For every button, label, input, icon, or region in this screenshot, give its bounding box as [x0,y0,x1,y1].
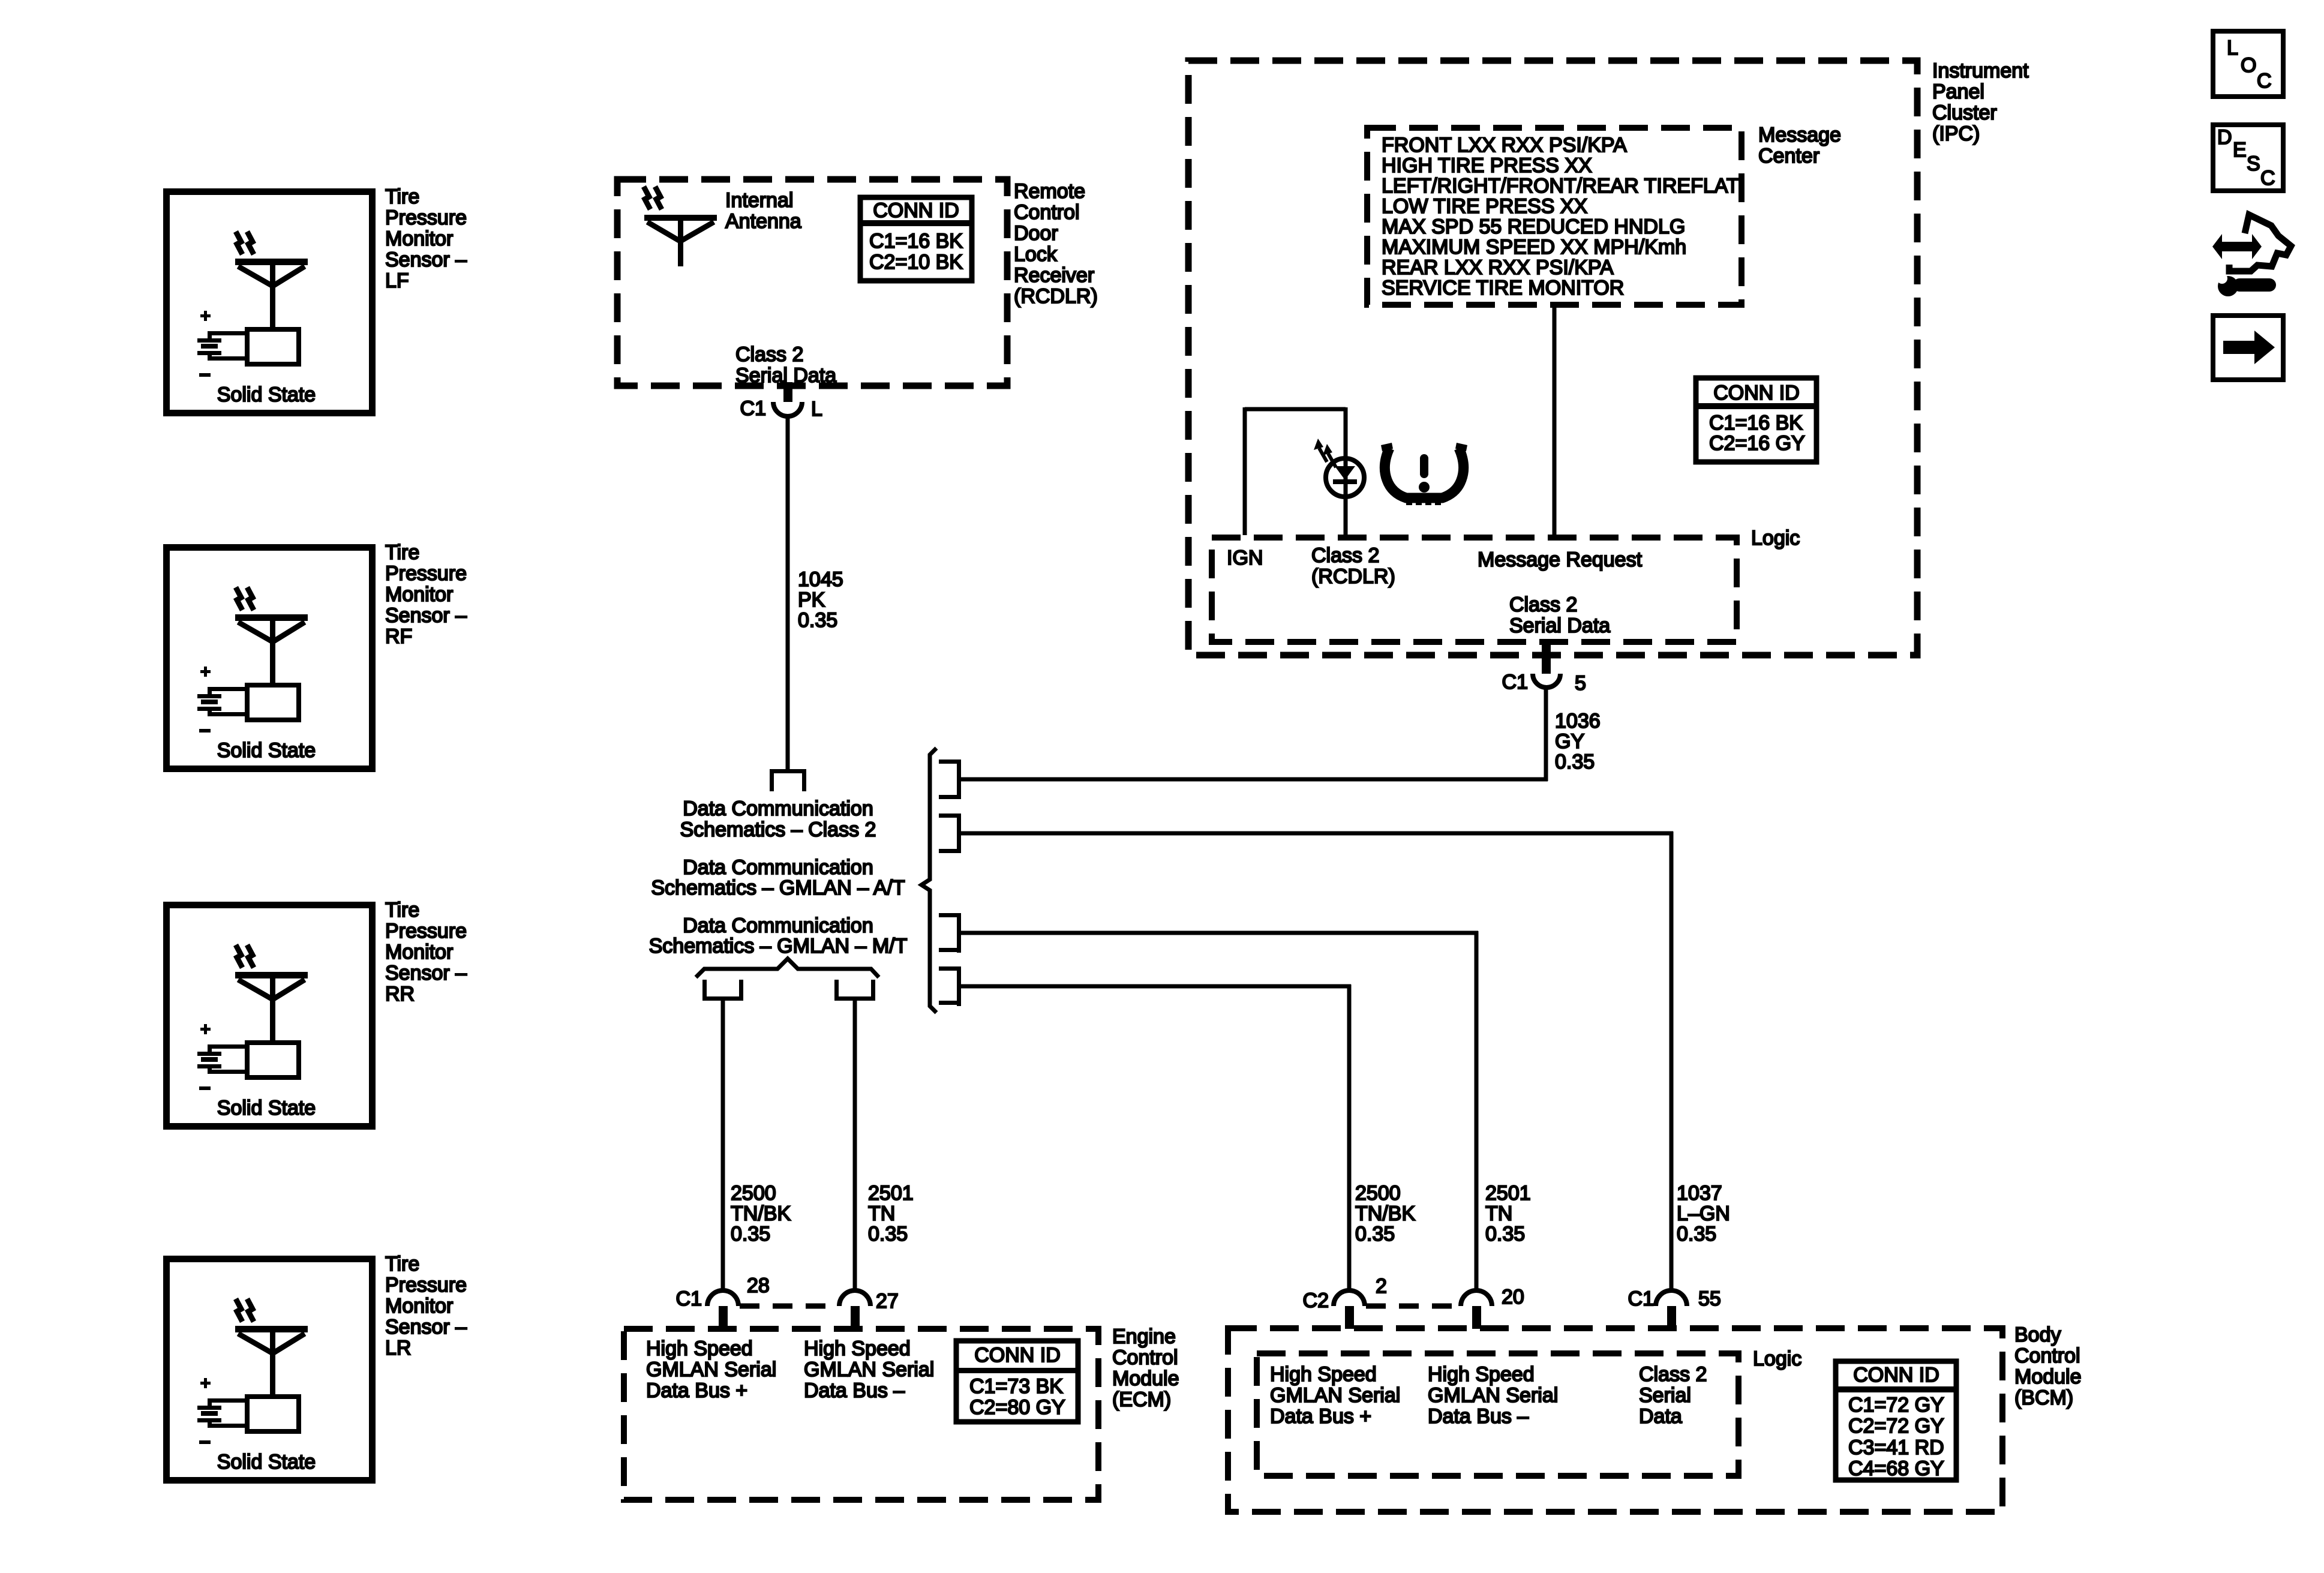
svg-text:High Speed: High Speed [1428,1363,1535,1386]
svg-text:2: 2 [1376,1275,1387,1298]
svg-text:C: C [2257,70,2272,92]
svg-text:Class 2: Class 2 [1639,1363,1707,1386]
connector pin 27 of ECM [839,1290,870,1306]
svg-text:20: 20 [1502,1286,1524,1308]
svg-text:Message Request: Message Request [1478,548,1643,571]
svg-text:Schematics – GMLAN – A/T: Schematics – GMLAN – A/T [651,876,905,899]
wire message request [1553,308,1557,535]
BCM logic dashed box [1257,1353,1739,1476]
svg-text:Data Bus –: Data Bus – [804,1379,905,1402]
svg-text:Instrument: Instrument [1932,59,2029,82]
svg-text:Class 2: Class 2 [1509,593,1577,616]
connector C1 pin 55 of BCM [1656,1290,1687,1306]
wire IGN loop top [1245,407,1346,412]
svg-text:CONN ID: CONN ID [873,199,959,222]
message center dashed box [1367,128,1742,305]
LED diode triangle [1335,466,1355,480]
svg-text:LEFT/RIGHT/FRONT/REAR TIREFLAT: LEFT/RIGHT/FRONT/REAR TIREFLAT [1382,175,1739,197]
svg-text:High Speed: High Speed [804,1337,911,1360]
svg-text:1037: 1037 [1677,1182,1722,1205]
tire pressure monitor sensor RR [167,905,373,1127]
svg-text:Cluster: Cluster [1932,101,1997,124]
svg-text:REAR LXX RXX PSI/KPA: REAR LXX RXX PSI/KPA [1382,256,1614,279]
svg-text:0.35: 0.35 [731,1223,770,1245]
RCDLR CONN ID table [860,197,972,281]
svg-text:C4=68 GY: C4=68 GY [1848,1457,1944,1480]
svg-text:2500: 2500 [1355,1182,1401,1205]
svg-text:LOW TIRE PRESS XX: LOW TIRE PRESS XX [1382,195,1587,218]
svg-text:Serial: Serial [1639,1384,1691,1407]
svg-text:TN: TN [868,1202,895,1225]
svg-text:LF: LF [385,269,409,292]
svg-text:Control: Control [1014,201,1080,224]
svg-text:Data Bus +: Data Bus + [1270,1405,1371,1428]
svg-text:Data Bus –: Data Bus – [1428,1405,1529,1428]
svg-text:High Speed: High Speed [1270,1363,1377,1386]
svg-text:Door: Door [1014,222,1058,245]
tire pressure monitor sensor RF [167,548,373,769]
svg-text:2501: 2501 [868,1182,914,1205]
svg-text:Pressure: Pressure [385,1274,467,1296]
svg-text:Remote: Remote [1014,180,1085,203]
svg-text:TN/BK: TN/BK [1355,1202,1415,1225]
svg-text:Internal: Internal [725,189,793,212]
svg-text:(RCDLR): (RCDLR) [1311,565,1395,588]
svg-text:Data Bus +: Data Bus + [646,1379,747,1402]
wire 2500 TN/BK to ECM pin 28 [721,999,725,1291]
svg-text:0.35: 0.35 [1485,1223,1525,1245]
svg-text:Panel: Panel [1932,80,1984,103]
svg-text:(BCM): (BCM) [2014,1386,2073,1409]
svg-text:L–GN: L–GN [1677,1202,1730,1225]
svg-text:C1: C1 [1502,671,1528,694]
svg-text:RF: RF [385,625,412,648]
svg-text:Monitor: Monitor [385,941,453,963]
svg-text:2501: 2501 [1485,1182,1531,1205]
svg-text:C2: C2 [1303,1289,1329,1312]
svg-text:Body: Body [2014,1323,2061,1346]
wire W4 vertical to BCM C2 pin 2 [1347,984,1352,1291]
svg-text:C1=72 GY: C1=72 GY [1848,1394,1944,1416]
svg-text:GMLAN Serial: GMLAN Serial [646,1358,776,1381]
svg-text:C2=16 GY: C2=16 GY [1709,432,1805,455]
svg-text:C1=73 BK: C1=73 BK [969,1375,1063,1398]
svg-text:Tire: Tire [385,541,419,564]
svg-text:Data Communication: Data Communication [683,914,873,937]
svg-text:Serial Data: Serial Data [1509,614,1610,637]
svg-text:GMLAN Serial: GMLAN Serial [804,1358,934,1381]
svg-text:Module: Module [2014,1365,2082,1388]
svg-text:IGN: IGN [1227,547,1263,569]
wire 1045 PK 0.35 [786,415,790,769]
off-page connector GMLAN bus + [702,980,707,1001]
connector C1 pin 28 of ECM [707,1290,738,1306]
svg-text:O: O [2241,54,2256,77]
svg-text:Sensor –: Sensor – [385,604,467,627]
svg-text:MAX SPD 55 REDUCED HNDLG: MAX SPD 55 REDUCED HNDLG [1382,215,1685,238]
svg-text:0.35: 0.35 [1355,1223,1395,1245]
ECM CONN ID table [956,1341,1078,1422]
IPC dashed box [1188,61,1917,655]
svg-text:27: 27 [876,1290,899,1313]
wire W2 class 2 serial data (1037 L-GN) horizontal [960,831,1673,836]
svg-text:0.35: 0.35 [798,609,837,632]
svg-text:C2=10 BK: C2=10 BK [869,251,963,274]
off-page connector 3 (GMLAN to BCM 20) [939,913,961,917]
svg-text:0.35: 0.35 [1677,1223,1716,1245]
svg-text:Sensor –: Sensor – [385,1316,467,1338]
svg-text:E: E [2233,139,2247,161]
svg-text:Center: Center [1758,145,1819,167]
svg-text:(ECM): (ECM) [1112,1388,1171,1411]
dashed connector link C1 (ECM) [740,1304,838,1309]
svg-text:C1=16 BK: C1=16 BK [869,230,963,253]
svg-text:PK: PK [798,589,825,611]
svg-text:Receiver: Receiver [1014,264,1094,287]
svg-text:Control: Control [2014,1344,2080,1367]
svg-text:CONN ID: CONN ID [1713,382,1800,404]
svg-text:(RCDLR): (RCDLR) [1014,285,1098,308]
wire W1 vertical from IPC C1 pin 5 [1544,686,1548,781]
svg-text:L: L [811,398,822,421]
dashed connector link C2 (BCM) [1366,1304,1460,1309]
svg-text:Pressure: Pressure [385,920,467,942]
svg-text:Pressure: Pressure [385,562,467,585]
svg-text:GY: GY [1555,730,1584,753]
svg-text:MAXIMUM SPEED XX MPH/Kmh: MAXIMUM SPEED XX MPH/Kmh [1382,236,1686,259]
svg-text:Data Communication: Data Communication [683,856,873,879]
svg-text:55: 55 [1698,1287,1721,1310]
svg-text:C1: C1 [1628,1287,1654,1310]
svg-text:FRONT LXX RXX PSI/KPA: FRONT LXX RXX PSI/KPA [1382,134,1627,157]
svg-text:GMLAN Serial: GMLAN Serial [1428,1384,1558,1407]
svg-text:RR: RR [385,983,415,1005]
svg-text:Sensor –: Sensor – [385,248,467,271]
svg-text:LR: LR [385,1337,411,1359]
svg-text:L: L [2227,37,2238,59]
svg-text:Class 2: Class 2 [1311,544,1379,567]
svg-text:5: 5 [1575,672,1586,695]
horizontal brace [696,959,879,977]
svg-text:Class 2: Class 2 [735,343,803,366]
BCM dashed box [1228,1328,2002,1512]
wire W3 vertical to BCM pin 20 [1475,931,1479,1291]
svg-text:1045: 1045 [798,568,843,591]
svg-text:Lock: Lock [1014,243,1058,266]
wire W3 GMLAN bus - horizontal [960,931,1478,935]
svg-text:C1: C1 [676,1287,702,1310]
svg-text:Logic: Logic [1753,1347,1801,1370]
off-page connector 4 (GMLAN to BCM 2) [939,966,961,971]
off-page connector 1 (class 2 to IPC) [939,760,961,764]
off-page connector GMLAN bus - [834,980,839,1001]
svg-text:28: 28 [747,1274,770,1297]
svg-text:Monitor: Monitor [385,1295,453,1317]
svg-text:C1=16 BK: C1=16 BK [1709,412,1803,434]
svg-text:Pressure: Pressure [385,206,467,229]
wire IGN vertical [1243,407,1247,535]
wrench and arrow diagnostic icon [2212,215,2291,296]
svg-text:CONN ID: CONN ID [974,1344,1061,1367]
svg-text:C2=72 GY: C2=72 GY [1848,1415,1944,1437]
tire pressure monitor sensor LR [167,1259,373,1481]
svg-text:Engine: Engine [1112,1325,1176,1348]
svg-text:High Speed: High Speed [646,1337,753,1360]
svg-text:C: C [2260,167,2275,190]
off-page connector to class 2 schematic [770,769,806,773]
svg-text:Antenna: Antenna [725,210,801,233]
svg-text:Data: Data [1639,1405,1682,1428]
TPMS warning icon [1381,443,1467,505]
internal antenna radio waves [644,187,650,209]
LOC icon box [2213,31,2283,97]
ECM dashed box [624,1329,1098,1500]
connector C2 pin 2 of BCM [1334,1290,1365,1306]
RCDLR dashed box [617,179,1007,386]
wire 2501 TN to ECM pin 27 [853,999,857,1291]
indicator LED circle [1326,458,1364,497]
off-page connector 2 (class 2 to BCM) [939,813,961,818]
internal antenna [644,215,717,221]
svg-text:Tire: Tire [385,185,419,208]
wire W1 class 2 serial data (1036 GY) horizontal [960,778,1548,782]
svg-text:Sensor –: Sensor – [385,962,467,984]
svg-text:D: D [2217,126,2232,149]
svg-text:Monitor: Monitor [385,583,453,606]
BCM CONN ID table [1836,1361,1956,1480]
svg-text:Control: Control [1112,1346,1178,1369]
LED emission arrow 2 [1328,454,1336,467]
DESC icon box [2213,125,2283,191]
IPC CONN ID table [1696,378,1816,462]
next page arrow icon box [2213,316,2283,380]
svg-text:GMLAN Serial: GMLAN Serial [1270,1384,1400,1407]
svg-text:2500: 2500 [731,1182,776,1205]
svg-text:0.35: 0.35 [1555,751,1595,773]
svg-text:C3=41 RD: C3=41 RD [1848,1436,1944,1459]
svg-text:(IPC): (IPC) [1932,122,1980,145]
svg-text:Data Communication: Data Communication [683,797,873,820]
svg-text:C1: C1 [740,397,766,420]
wire class 2 RCDLR indicator vertical [1344,407,1348,535]
wire W2 vertical to BCM C1 pin 55 [1670,831,1674,1291]
svg-text:C2=80 GY: C2=80 GY [969,1396,1065,1419]
svg-text:Tire: Tire [385,1253,419,1275]
LED emission arrow 1 [1319,448,1327,462]
wire W4 GMLAN bus + horizontal [960,984,1351,989]
svg-text:Tire: Tire [385,899,419,921]
svg-text:S: S [2247,152,2260,175]
svg-text:CONN ID: CONN ID [1853,1364,1939,1386]
IPC logic dashed box [1212,538,1737,642]
svg-text:Monitor: Monitor [385,227,453,250]
svg-text:Message: Message [1758,124,1841,146]
connector C1 pin L of RCDLR [783,382,792,402]
svg-text:TN/BK: TN/BK [731,1202,791,1225]
tire pressure monitor sensor LF [167,192,373,413]
svg-text:0.35: 0.35 [868,1223,908,1245]
svg-text:TN: TN [1485,1202,1512,1225]
svg-text:HIGH TIRE PRESS XX: HIGH TIRE PRESS XX [1382,154,1592,177]
connector C1 pin 5 of IPC [1542,640,1551,674]
svg-text:1036: 1036 [1555,710,1601,733]
LED cathode bar [1333,479,1357,484]
svg-text:Schematics – GMLAN – M/T: Schematics – GMLAN – M/T [649,935,908,957]
svg-text:Logic: Logic [1751,527,1800,550]
svg-text:Module: Module [1112,1367,1179,1390]
svg-text:Schematics – Class 2: Schematics – Class 2 [680,818,876,841]
connector pin 20 of BCM [1461,1290,1492,1306]
vertical brace [921,748,936,1013]
svg-text:SERVICE TIRE MONITOR: SERVICE TIRE MONITOR [1382,277,1624,299]
